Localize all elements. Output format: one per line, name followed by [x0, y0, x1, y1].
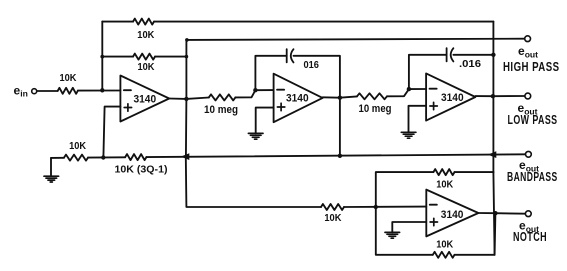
node [338, 96, 342, 100]
wire low-pass [493, 95, 525, 97]
svg-text:NOTCH: NOTCH [513, 229, 547, 244]
wire [376, 207, 433, 255]
label 10K (3Q-1) [115, 165, 168, 176]
wire [169, 98, 186, 100]
op-amp U1 [120, 76, 169, 122]
resistor 10K inner feedback [133, 54, 155, 60]
wire [78, 90, 121, 92]
label e_out [519, 219, 539, 235]
wire [339, 98, 341, 156]
node [493, 211, 497, 215]
node [338, 154, 342, 158]
svg-text:10 meg: 10 meg [204, 104, 238, 116]
resistor 10K notch feedback bottom [433, 252, 455, 258]
wire [88, 156, 125, 158]
wire [409, 106, 427, 132]
label 016 [304, 60, 320, 71]
wire [155, 56, 186, 58]
svg-text:10K: 10K [60, 73, 78, 84]
junction arrow [181, 153, 190, 160]
wire [37, 90, 57, 92]
label HIGH PASS [503, 59, 560, 74]
svg-text:eout: eout [518, 44, 538, 60]
svg-text:ein: ein [14, 84, 28, 99]
wire [102, 56, 133, 58]
wire [340, 96, 357, 97]
node [253, 88, 257, 92]
label BANDPASS [507, 169, 558, 184]
terminal e_out bandpass [526, 151, 532, 157]
wire [102, 21, 133, 23]
wire [103, 107, 120, 158]
label e_in [14, 84, 28, 99]
terminal e_out notch [525, 211, 531, 217]
wire [256, 108, 274, 134]
wire [185, 40, 187, 99]
wire [185, 99, 188, 157]
label 10K [436, 180, 454, 191]
wire band-pass [146, 154, 525, 157]
node [185, 38, 189, 42]
op-amp U4 [426, 190, 478, 237]
label 10 meg [359, 103, 392, 115]
wire [455, 171, 494, 173]
node [491, 94, 495, 98]
label NOTCH [513, 229, 547, 244]
wire [409, 55, 447, 89]
svg-text:3140: 3140 [286, 93, 309, 105]
svg-text:10K: 10K [69, 141, 87, 152]
label .016 [459, 59, 481, 70]
label 10K [60, 73, 78, 84]
wire [392, 222, 426, 232]
resistor 10 meg second [357, 93, 387, 99]
svg-text:016: 016 [304, 60, 320, 71]
label 10K [69, 141, 87, 152]
wire [387, 89, 409, 96]
wire [255, 89, 273, 91]
wire [50, 158, 52, 176]
ground under U4 [385, 232, 400, 238]
svg-text:10K: 10K [324, 213, 342, 224]
op-amp U3 [426, 73, 475, 120]
label 10K [324, 213, 342, 224]
wire [186, 98, 208, 99]
svg-text:10K: 10K [436, 180, 454, 191]
svg-text:LOW PASS: LOW PASS [508, 112, 558, 127]
wire [186, 157, 321, 207]
wire [51, 157, 64, 159]
resistor 10K notch input [321, 204, 344, 210]
node A [100, 88, 104, 92]
wire [294, 56, 340, 98]
resistor 10K 3Q-1 [125, 154, 146, 160]
wire high-pass [186, 39, 524, 40]
label e_out [518, 44, 538, 60]
wire [475, 95, 493, 97]
node [184, 97, 188, 101]
wire [478, 212, 495, 214]
wire [323, 96, 340, 98]
wire [409, 88, 426, 90]
wire [493, 172, 494, 255]
wire [453, 54, 493, 56]
ground under U2 [248, 133, 263, 139]
wire [255, 56, 286, 90]
wire [101, 22, 103, 91]
terminal e_out low pass [525, 93, 531, 99]
node [407, 87, 411, 91]
capacitor C2 .016 [447, 48, 454, 61]
ground at input divider [44, 176, 59, 182]
wire [235, 90, 255, 97]
capacitor C1 016 [287, 49, 294, 62]
op-amp U2 [274, 74, 323, 123]
svg-text:3140: 3140 [441, 209, 464, 221]
wire [492, 22, 494, 173]
node [374, 205, 378, 209]
ground under U3 [401, 132, 416, 138]
svg-text:10 meg: 10 meg [359, 103, 392, 115]
wire notch out [495, 212, 525, 215]
label 10 meg [204, 104, 238, 116]
label LOW PASS [508, 112, 558, 127]
wire [455, 213, 496, 255]
label e_out [518, 101, 538, 117]
svg-text:3140: 3140 [134, 94, 157, 106]
wire [376, 172, 434, 207]
svg-text:HIGH PASS: HIGH PASS [503, 59, 560, 74]
node [185, 55, 189, 59]
svg-text:.016: .016 [459, 59, 481, 70]
node [491, 53, 495, 57]
node [100, 55, 104, 59]
label 10K [137, 30, 155, 41]
label e_out [519, 158, 539, 174]
junction arrow [488, 151, 497, 158]
resistor 10K top feedback [133, 19, 154, 25]
svg-text:10K: 10K [436, 239, 454, 250]
label 10K [436, 239, 454, 250]
wire [344, 206, 426, 208]
svg-text:10K: 10K [137, 30, 155, 41]
resistor 10K notch feedback top [433, 169, 454, 175]
svg-text:10K: 10K [138, 62, 156, 73]
svg-text:3140: 3140 [441, 92, 464, 104]
wire [154, 21, 493, 23]
svg-text:BANDPASS: BANDPASS [507, 169, 558, 184]
terminal e_in [32, 89, 37, 94]
node [101, 155, 105, 159]
label 10K [138, 62, 156, 73]
resistor 10K to ground [64, 155, 88, 161]
svg-text:10K (3Q-1): 10K (3Q-1) [115, 165, 168, 176]
resistor 10K input [58, 88, 78, 94]
terminal e_out high pass [525, 36, 531, 42]
resistor 10 meg first [209, 94, 236, 100]
